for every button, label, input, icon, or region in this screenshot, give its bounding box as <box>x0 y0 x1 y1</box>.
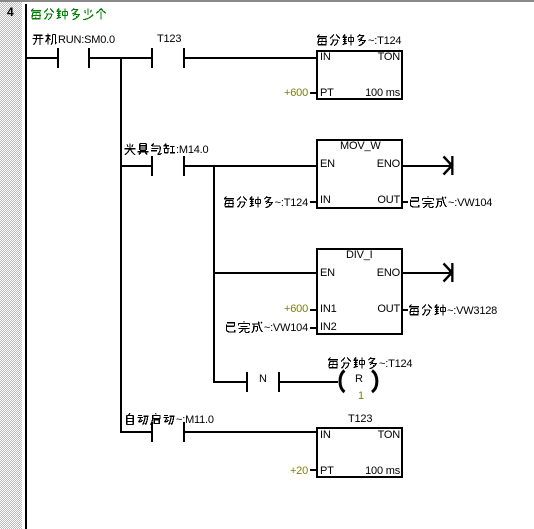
label 每分钟~:VW3128 at DIV_I OUT <box>408 304 497 317</box>
label 自动启动~:M11.0 <box>124 413 214 426</box>
value 1 below R coil <box>358 391 364 402</box>
TON type label <box>378 430 400 441</box>
continuation arrow 2 <box>440 260 456 285</box>
pin IN label <box>320 52 331 63</box>
pin OUT label <box>377 195 400 206</box>
label 开机RUN:SM0.0 <box>32 33 115 46</box>
contact 夹具气缸:M14.0 left bar <box>151 156 153 176</box>
PT pin stub <box>310 92 316 94</box>
contact N left bar <box>246 372 248 392</box>
contact N right bar <box>278 372 280 392</box>
pin IN1 label <box>320 304 337 315</box>
label 每分钟多~:T124 at MOV_W IN <box>223 196 308 209</box>
label T123 <box>157 34 181 45</box>
wire branch2 to DIV_I EN <box>215 272 316 274</box>
wire branch to contact M14.0 <box>120 165 151 167</box>
DIV_I ENO wire <box>401 272 452 274</box>
IN pin stub <box>310 201 316 203</box>
wire contact2 to timer box <box>185 57 316 59</box>
pin EN label <box>320 268 335 279</box>
timer box TON T124 <box>316 50 403 100</box>
IN2 pin stub <box>310 327 316 329</box>
box DIV_I <box>316 248 403 335</box>
timer T123 label <box>348 414 372 425</box>
label 已完成~:VW104 at MOV_W OUT <box>409 196 492 209</box>
wire contact M11.0 to timer T123 box <box>185 431 316 433</box>
contact T123 left bar <box>151 48 153 68</box>
PT pin stub <box>310 469 316 471</box>
contact 夹具气缸:M14.0 right bar <box>183 156 185 176</box>
contact 开机RUN:SM0.0 right bar <box>88 48 90 68</box>
value +20 <box>290 466 308 477</box>
100 ms label <box>365 88 400 99</box>
wire N contact to R coil <box>280 381 338 383</box>
value +600 at IN1 <box>284 304 308 315</box>
pin PT label <box>320 466 334 477</box>
DIV_I title <box>346 250 373 261</box>
label 夹具气缸:M14.0 <box>124 143 208 156</box>
network comment 每分钟多少个 <box>30 8 108 20</box>
timer box TON T123 <box>316 427 403 478</box>
pin OUT label <box>377 304 400 315</box>
timer T124 label 每分钟多~:T124 <box>316 34 401 47</box>
pin IN2 label <box>320 322 337 333</box>
R letter <box>355 374 363 385</box>
pin PT label <box>320 88 334 99</box>
coil R parentheses <box>334 369 382 394</box>
network number 4 <box>7 7 13 18</box>
pin EN label <box>320 159 335 170</box>
IN1 pin stub <box>310 309 316 311</box>
100 ms label <box>365 466 400 477</box>
MOV_W title <box>340 141 381 152</box>
left power rail <box>25 4 27 529</box>
branch junction vertical wire <box>120 57 122 433</box>
box MOV_W <box>316 139 403 209</box>
pin IN label <box>320 430 331 441</box>
value +600 <box>284 88 308 99</box>
OUT pin stub <box>401 309 408 311</box>
MOV_W ENO wire <box>401 165 452 167</box>
wire contact M14.0 to MOV_W EN <box>185 165 316 167</box>
contact 自动启动~:M11.0 left bar <box>151 422 153 442</box>
wire branch1 corner to contact M11.0 <box>120 431 151 433</box>
label 已完成~:VW104 at IN2 <box>225 321 308 334</box>
top window edge <box>0 0 534 2</box>
pin IN label <box>320 195 331 206</box>
TON type label <box>378 52 400 63</box>
label 每分钟多~:T124 above R coil <box>327 357 412 370</box>
wire branch2 to N contact <box>215 381 246 383</box>
network margin (dithered gutter) <box>0 0 22 529</box>
OUT pin stub <box>401 201 408 203</box>
N letter <box>259 374 267 385</box>
wire contact1 to contact2 <box>90 57 151 59</box>
contact 开机RUN:SM0.0 left bar <box>57 48 59 68</box>
contact T123 right bar <box>183 48 185 68</box>
pin ENO label <box>377 268 400 279</box>
contact 自动启动~:M11.0 right bar <box>183 422 185 442</box>
branch2 vertical wire <box>213 165 215 383</box>
pin ENO label <box>377 159 400 170</box>
wire rail to contact1 <box>27 57 57 59</box>
continuation arrow 1 <box>440 153 456 178</box>
